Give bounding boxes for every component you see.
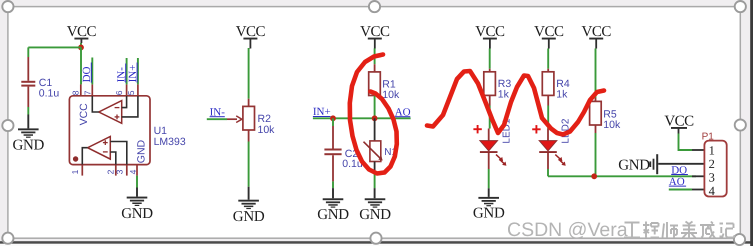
svg-text:VCC: VCC bbox=[78, 103, 90, 126]
op-amp U1B triangle (bottom comparator) bbox=[88, 136, 111, 159]
U1 pin 6 bbox=[126, 84, 128, 95]
pin R2 top bbox=[248, 99, 250, 107]
svg-text:GND: GND bbox=[473, 206, 505, 222]
wire black to ground bbox=[27, 115, 29, 129]
svg-text:P1: P1 bbox=[702, 132, 715, 143]
annotation scribble wave (across LEDs) bbox=[427, 71, 604, 135]
power flag VCC (P1) bbox=[664, 114, 694, 134]
power flag VCC (U1 section) bbox=[67, 24, 97, 43]
node DO (label at U1 pin 7) bbox=[81, 63, 93, 83]
wire IN+ net horizontal bbox=[313, 117, 411, 119]
resistor R5 bbox=[590, 101, 621, 131]
svg-text:GND: GND bbox=[618, 158, 650, 174]
wire DO net at pin 7 bbox=[91, 58, 93, 85]
svg-text:GND: GND bbox=[12, 138, 44, 154]
svg-text:0.1u: 0.1u bbox=[39, 88, 60, 100]
wire U1 pin 4 to ground bbox=[136, 176, 138, 188]
wire black to ground (LED1) bbox=[488, 188, 490, 197]
wire black to ground (N1) bbox=[374, 188, 376, 198]
junction C2 node bbox=[330, 115, 336, 121]
wire VCC to R3 bbox=[489, 49, 491, 69]
node DO (net label at P1) bbox=[671, 164, 688, 176]
U1 pin 4 bbox=[136, 165, 138, 176]
wire black to ground (U1) bbox=[136, 188, 138, 197]
U1 pin 2 bbox=[115, 165, 117, 176]
wire junction to C1 bbox=[28, 46, 81, 48]
power flag VCC (R3) bbox=[475, 24, 505, 48]
LED LED1 bbox=[480, 118, 513, 169]
U1 pin 7 bbox=[91, 84, 93, 95]
sensor N1 (photoresistor) bbox=[364, 118, 398, 172]
wire VCC to R4 bbox=[547, 49, 549, 69]
pin R1 top bbox=[374, 64, 376, 72]
svg-text:1: 1 bbox=[70, 169, 80, 174]
power flag VCC (R4) bbox=[534, 24, 564, 48]
LED2 polarity + mark bbox=[532, 125, 540, 133]
op-amp U1A triangle (top comparator) bbox=[99, 101, 122, 124]
wire LED1 to ground bbox=[488, 169, 490, 188]
svg-text:1: 1 bbox=[709, 144, 715, 158]
ground (C1) bbox=[12, 128, 44, 153]
svg-text:10k: 10k bbox=[603, 119, 621, 131]
node IN- (label at U1 pin 6) bbox=[116, 64, 128, 83]
resistor R3 bbox=[484, 72, 512, 101]
wire R2 to ground bbox=[248, 142, 250, 187]
pin R3 bottom bbox=[489, 95, 491, 105]
svg-text:1k: 1k bbox=[556, 89, 568, 101]
wire N1 to ground bbox=[374, 172, 376, 188]
svg-text:4: 4 bbox=[709, 184, 716, 198]
pin R4 bottom bbox=[547, 95, 549, 105]
junction VCC/C1 node bbox=[78, 45, 84, 51]
wire R4 to LED2 bbox=[547, 106, 549, 129]
wire U1B non-inverting input to pin 3 bbox=[110, 142, 127, 165]
wire IN- net at pin 6 bbox=[126, 58, 128, 84]
ground (P1 pin 2, bar style) bbox=[618, 154, 658, 174]
svg-text:4: 4 bbox=[128, 169, 138, 174]
wire VCC to junction bbox=[80, 43, 82, 47]
wire C2 to ground bbox=[332, 181, 334, 188]
U1 pin 5 bbox=[137, 84, 139, 95]
wire U1 pin5 to U1A non-inverting input bbox=[122, 96, 138, 117]
svg-text:3: 3 bbox=[709, 171, 715, 185]
wire U1 pin6 to U1A inverting input bbox=[122, 96, 127, 108]
svg-text:10k: 10k bbox=[382, 89, 400, 101]
wire LED2 to DO net bbox=[547, 169, 549, 176]
ground (LED1) bbox=[473, 197, 505, 222]
svg-text:8: 8 bbox=[71, 90, 81, 95]
annotation scribble oval (around R1/N1) bbox=[350, 55, 397, 174]
ground (R2) bbox=[233, 200, 265, 226]
wire R1 to node bbox=[374, 96, 376, 119]
wire IN+ net at pin 5 bbox=[137, 58, 139, 84]
pin R2 bottom bbox=[248, 130, 250, 142]
node IN+ (label at U1 pin 5) bbox=[127, 63, 139, 83]
wire VCC to R5 bbox=[595, 49, 597, 99]
resistor R2 (potentiometer body) bbox=[243, 106, 275, 135]
power flag VCC (R1 section) bbox=[360, 24, 390, 48]
op-amp U1 LM393 body bbox=[69, 96, 185, 165]
wire AO to P1 pin 4 bbox=[669, 189, 692, 191]
svg-text:GND: GND bbox=[136, 139, 148, 163]
pin R3 top bbox=[489, 69, 491, 72]
LED1 polarity + mark bbox=[473, 125, 481, 133]
svg-text:3: 3 bbox=[115, 169, 125, 174]
wire R5 to DO net bbox=[595, 133, 597, 176]
wire black to ground (R2) bbox=[248, 187, 250, 200]
svg-text:10k: 10k bbox=[258, 124, 276, 136]
LED2 emission arrows bbox=[555, 155, 565, 166]
wire IN- to wiper bbox=[207, 118, 227, 120]
resistor R4 bbox=[542, 72, 570, 101]
pin R5 bottom bbox=[595, 125, 597, 133]
pin R4 top bbox=[547, 69, 549, 72]
wire U1B inverting input to pin 2 bbox=[110, 152, 116, 165]
power flag VCC (R5) bbox=[582, 24, 612, 48]
ground (U1 pin 4) bbox=[121, 197, 153, 222]
junction R1/N1 node bbox=[372, 115, 378, 121]
node AO (net label at P1) bbox=[669, 176, 686, 188]
svg-text:GND: GND bbox=[233, 209, 265, 225]
wire C1 to ground bbox=[27, 107, 29, 115]
svg-text:GND: GND bbox=[121, 206, 153, 222]
U1 pin 8 bbox=[80, 84, 82, 95]
wire R3 to LED1 bbox=[489, 106, 491, 129]
node AO (net label) bbox=[395, 106, 411, 118]
wire DO net horizontal bbox=[548, 175, 696, 177]
U1 pin 1 bbox=[81, 165, 83, 176]
svg-text:2: 2 bbox=[709, 157, 715, 171]
connector P1 bbox=[692, 132, 727, 198]
node IN+ (net label) bbox=[313, 106, 331, 118]
ground (N1) bbox=[359, 198, 391, 223]
resistor R1 bbox=[369, 72, 400, 101]
wire VCC to P1 pin 1 bbox=[679, 134, 693, 151]
svg-text:5: 5 bbox=[126, 90, 136, 95]
potentiometer R2 wiper arrow bbox=[227, 116, 242, 123]
wire VCC down to U1 pin 8 bbox=[80, 47, 82, 84]
wire GND to P1 pin 2 bbox=[658, 163, 704, 165]
LED1 emission arrows bbox=[496, 155, 506, 166]
wire VCC to R2 bbox=[248, 48, 250, 99]
capacitor C1 bbox=[21, 47, 59, 107]
U1 pin 3 bbox=[126, 165, 128, 176]
wire U1B output to pin 1 bbox=[82, 148, 87, 165]
svg-text:GND: GND bbox=[359, 207, 391, 223]
wire U1 pin7 to U1A output bbox=[92, 96, 99, 112]
pin R5 top bbox=[595, 98, 597, 101]
svg-text:CSDN @Vera: CSDN @Vera bbox=[507, 219, 628, 241]
watermark chinese glyphs bbox=[624, 222, 735, 239]
wire VCC to R1 bbox=[374, 48, 376, 64]
power flag VCC (R2 section) bbox=[236, 24, 266, 48]
svg-text:6: 6 bbox=[114, 90, 124, 95]
svg-text:7: 7 bbox=[83, 90, 93, 95]
svg-text:1k: 1k bbox=[498, 89, 510, 101]
capacitor C2 bbox=[324, 118, 362, 181]
LED LED2 bbox=[539, 118, 572, 169]
svg-text:GND: GND bbox=[317, 207, 349, 223]
wire black to ground (C2) bbox=[332, 188, 334, 198]
svg-text:LM393: LM393 bbox=[154, 136, 186, 148]
ground (C2) bbox=[317, 198, 349, 223]
node IN- (net label at R2 wiper) bbox=[210, 106, 226, 118]
junction R5/DO net bbox=[591, 173, 597, 179]
